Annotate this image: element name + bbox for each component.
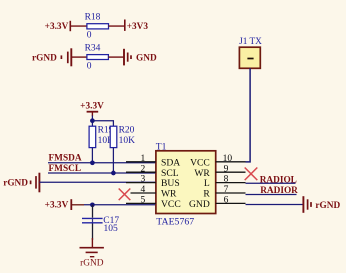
svg-text:6: 6 — [224, 196, 229, 206]
junction FMSDA/R19 — [90, 160, 95, 165]
svg-text:BUS: BUS — [161, 178, 180, 189]
wire RADIOL (pin 8) — [246, 182, 296, 184]
svg-text:+3.3V: +3.3V — [45, 22, 69, 32]
svg-text:2: 2 — [141, 164, 146, 174]
svg-text:rGND: rGND — [315, 201, 340, 211]
wire row1 left — [70, 25, 87, 27]
capacitor C17 — [82, 205, 119, 240]
wire R20 bottom to FMSCL — [112, 148, 114, 173]
svg-text:R: R — [203, 189, 210, 200]
pin 9 stub — [216, 171, 246, 173]
pin 6 stub — [216, 202, 246, 204]
svg-text:WR: WR — [161, 189, 177, 200]
pin 7 stub — [216, 192, 246, 194]
svg-text:+3V3: +3V3 — [127, 22, 149, 32]
wire pin 6 to rGND — [246, 204, 304, 206]
power +3.3V (row 1 left) — [45, 21, 71, 32]
ground GND (row 2 right) — [124, 49, 157, 66]
svg-text:GND: GND — [136, 53, 157, 63]
svg-text:3: 3 — [141, 175, 146, 185]
pin 4 stub — [131, 192, 156, 194]
svg-text:rGND: rGND — [32, 53, 57, 63]
svg-text:J1 TX: J1 TX — [239, 37, 262, 47]
op IC T1 TAE5767 — [156, 142, 216, 227]
svg-text:8: 8 — [224, 175, 229, 185]
svg-text:10K: 10K — [119, 136, 136, 146]
svg-text:10: 10 — [223, 154, 233, 164]
svg-text:SDA: SDA — [161, 157, 180, 168]
svg-text:5: 5 — [141, 196, 146, 206]
ground rGND (right, pin 6) — [303, 196, 340, 213]
svg-text:1: 1 — [141, 154, 146, 164]
power +3V3 (row 1 right) — [125, 20, 149, 33]
svg-text:9: 9 — [224, 164, 229, 174]
wire row1 right — [109, 25, 125, 27]
power +3.3V (pin 5 row) — [45, 199, 72, 210]
wire junction to R20 top — [92, 121, 113, 127]
resistor R34 — [85, 43, 109, 71]
wire BUS (pin 3) — [39, 181, 155, 183]
wire FMSCL (pin 2) — [48, 172, 156, 174]
svg-text:7: 7 — [224, 185, 229, 195]
svg-text:TAE5767: TAE5767 — [156, 217, 194, 228]
pin 1 stub — [126, 161, 156, 163]
no-ERC X on pin 9 — [245, 168, 258, 181]
svg-text:0: 0 — [87, 30, 92, 40]
pin 8 stub — [216, 182, 246, 184]
pin 2 stub — [126, 171, 156, 173]
svg-text:4: 4 — [141, 185, 146, 195]
pin 10 stub — [216, 161, 246, 163]
svg-text:VCC: VCC — [161, 199, 181, 210]
svg-text:L: L — [204, 178, 210, 189]
resistor R20 — [110, 126, 135, 148]
junction C17 top — [90, 202, 95, 207]
ground rGND (row 2 left) — [32, 48, 71, 66]
svg-text:R18: R18 — [85, 13, 101, 23]
svg-text:R20: R20 — [119, 126, 135, 136]
svg-text:0: 0 — [87, 62, 92, 72]
svg-text:rGND: rGND — [80, 259, 104, 269]
wire +3.3V to pin 5 — [71, 204, 84, 206]
svg-text:VCC: VCC — [190, 157, 210, 168]
svg-text:WR: WR — [194, 168, 210, 179]
junction FMSCL/R20 — [111, 171, 116, 176]
wire row2 left — [71, 56, 87, 58]
svg-text:105: 105 — [104, 224, 119, 234]
wire RADIOR (pin 7) — [246, 194, 297, 196]
svg-text:GND: GND — [189, 199, 210, 210]
resistor R19 — [89, 126, 114, 148]
svg-text:R34: R34 — [85, 43, 101, 53]
resistor R18 — [85, 13, 109, 41]
pin 3 stub — [126, 182, 156, 184]
wire +3.3V down to junction — [91, 116, 93, 127]
ground rGND (left, BUS pin 3) — [3, 173, 39, 193]
power +3.3V (above R19/R20) — [80, 102, 104, 117]
no-ERC X on pin 4 — [119, 189, 131, 201]
wire R19 bottom to FMSDA — [91, 148, 93, 163]
svg-text:SCL: SCL — [161, 168, 179, 179]
junction at R19 top — [90, 118, 95, 123]
wire row2 right — [108, 56, 124, 58]
wire FMSDA (pin 1) — [48, 162, 156, 164]
connector J1 TX — [239, 37, 262, 68]
pin 5 stub — [126, 202, 156, 204]
wire pin 10 to J1 — [246, 68, 251, 162]
svg-text:FMSDA: FMSDA — [49, 153, 82, 163]
svg-text:rGND: rGND — [3, 179, 28, 189]
svg-text:+3.3V: +3.3V — [80, 102, 104, 112]
ground rGND (below C17) — [80, 238, 104, 269]
svg-text:+3.3V: +3.3V — [45, 200, 69, 210]
